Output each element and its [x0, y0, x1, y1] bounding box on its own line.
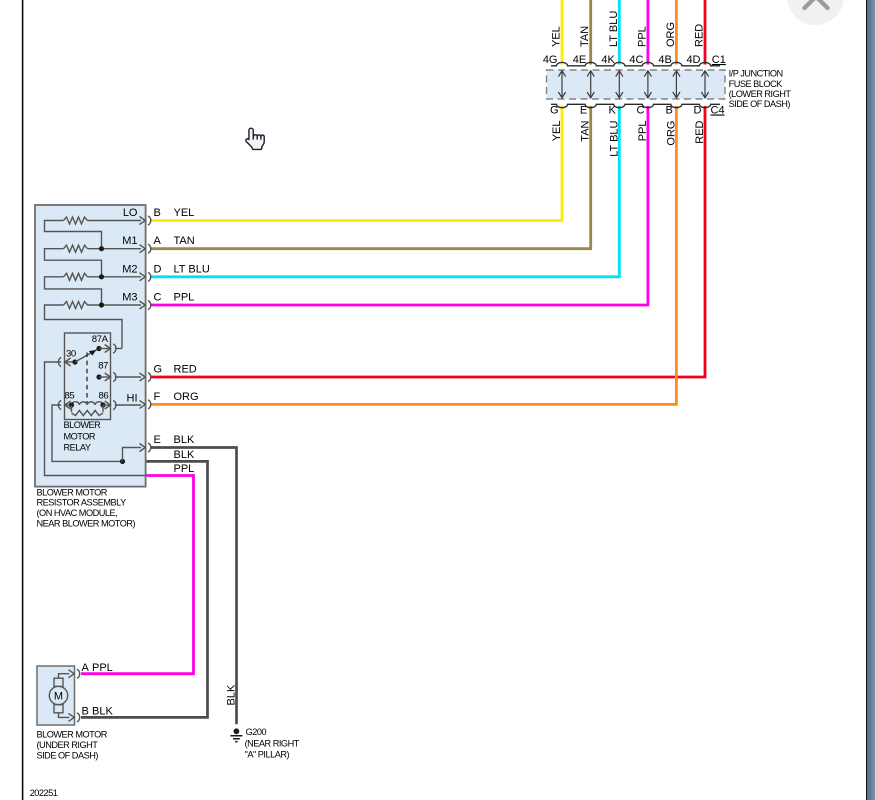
svg-text:ORG: ORG — [174, 391, 199, 403]
svg-text:B: B — [154, 207, 161, 219]
relay pin 87A — [96, 346, 101, 351]
relay armature 30 to 87A — [75, 349, 99, 363]
resistor M1 — [64, 245, 88, 252]
svg-text:TAN: TAN — [579, 26, 591, 47]
svg-text:C4: C4 — [711, 105, 725, 117]
svg-text:RED: RED — [174, 364, 197, 376]
svg-text:PPL: PPL — [636, 26, 648, 47]
svg-text:(UNDER RIGHT: (UNDER RIGHT — [37, 740, 99, 750]
blower motor label — [37, 730, 108, 761]
svg-text:85: 85 — [65, 391, 75, 402]
node BLK junction — [120, 459, 125, 464]
node M1 junction — [99, 246, 104, 251]
fuse block bottom connector bumps — [551, 104, 720, 107]
svg-text:TAN: TAN — [174, 235, 195, 247]
wire resistor chain serpentine — [45, 221, 123, 349]
resistor M2 — [64, 273, 88, 280]
svg-text:B: B — [666, 105, 673, 117]
page left border — [22, 0, 24, 800]
svg-text:RESISTOR ASSEMBLY: RESISTOR ASSEMBLY — [37, 498, 127, 508]
wire ORG above fuse block — [675, 0, 678, 65]
wire RED above fuse block — [704, 0, 707, 65]
blower motor box — [37, 666, 75, 725]
fuse block top connector bumps — [551, 62, 720, 65]
wire BLK relay 85 to blower motor B — [81, 461, 208, 717]
wire LO tap to connector — [88, 220, 142, 222]
svg-text:M: M — [54, 691, 63, 703]
connector pin A — [140, 245, 146, 253]
relay coil 85-86 — [58, 400, 61, 409]
wire BLK connector E to ground G200 — [151, 448, 237, 725]
svg-text:YEL: YEL — [551, 121, 563, 142]
fuse block pass-through arrow 4 — [644, 71, 651, 98]
svg-text:4E: 4E — [573, 54, 586, 66]
svg-text:E: E — [580, 105, 587, 117]
wire junction to connector E — [123, 448, 142, 462]
connector pin G — [140, 373, 146, 381]
svg-text:"A" PILLAR): "A" PILLAR) — [245, 750, 290, 760]
blower motor resistor assembly box — [35, 205, 146, 487]
svg-text:4G: 4G — [543, 54, 558, 66]
resistor LO — [64, 217, 88, 224]
svg-text:A: A — [82, 662, 90, 674]
motor M1 symbol — [49, 674, 69, 718]
close button — [787, 0, 844, 25]
svg-text:(NEAR RIGHT: (NEAR RIGHT — [245, 739, 300, 749]
ground G200 — [230, 728, 242, 741]
svg-text:PPL: PPL — [174, 292, 195, 304]
fuse block pass-through arrow 3 — [616, 71, 623, 98]
wire PPL fuse block to connector — [151, 106, 648, 305]
wire M1 tap to connector — [88, 248, 142, 250]
svg-text:B: B — [82, 706, 89, 718]
svg-text:4K: 4K — [601, 54, 615, 66]
wire 87A to resistor chain — [115, 348, 122, 350]
svg-text:BLOWER MOTOR: BLOWER MOTOR — [37, 487, 108, 497]
motor connector pin B — [68, 713, 74, 721]
svg-text:LO: LO — [123, 207, 138, 219]
blower motor relay label — [64, 420, 102, 452]
svg-text:(ON HVAC MODULE,: (ON HVAC MODULE, — [37, 508, 118, 518]
svg-text:BLK: BLK — [174, 434, 195, 446]
svg-text:BLOWER MOTOR: BLOWER MOTOR — [37, 730, 108, 740]
svg-text:D: D — [694, 105, 702, 117]
svg-text:4C: 4C — [629, 54, 643, 66]
wire 87 to connector G — [115, 376, 141, 378]
svg-text:LT BLU: LT BLU — [608, 11, 620, 47]
wire PPL above fuse block — [647, 0, 650, 65]
wire M3 tap to connector — [88, 304, 142, 306]
svg-text:HI: HI — [127, 392, 138, 404]
svg-text:4B: 4B — [658, 54, 671, 66]
wire TAN fuse block to connector — [151, 106, 591, 249]
svg-text:ORG: ORG — [665, 22, 677, 47]
svg-text:4D: 4D — [686, 54, 700, 66]
svg-text:I/P JUNCTION: I/P JUNCTION — [729, 69, 783, 79]
motor connector pin A — [68, 670, 74, 678]
svg-text:G: G — [154, 364, 163, 376]
svg-text:87: 87 — [98, 361, 108, 372]
ground label G200 — [245, 727, 300, 760]
svg-text:BLK: BLK — [174, 449, 195, 461]
fuse block pass-through arrow 6 — [701, 71, 708, 98]
resistor M3 — [64, 302, 88, 309]
mouse cursor — [246, 128, 264, 149]
svg-text:86: 86 — [99, 391, 109, 402]
svg-text:RELAY: RELAY — [64, 443, 91, 453]
fuse block name text — [729, 69, 792, 110]
svg-text:PPL: PPL — [92, 662, 113, 674]
svg-text:C: C — [636, 105, 644, 117]
connector pin B — [140, 217, 146, 225]
fuse block pass-through arrow 2 — [587, 71, 594, 98]
svg-text:YEL: YEL — [174, 207, 195, 219]
blower motor relay box — [65, 333, 111, 420]
svg-text:PPL: PPL — [637, 121, 649, 142]
I/P junction fuse block body — [547, 70, 726, 99]
connector pin E — [140, 444, 146, 452]
svg-text:D: D — [154, 263, 162, 275]
svg-text:PPL: PPL — [174, 463, 195, 475]
wire RED fuse block to connector — [151, 106, 705, 377]
connector pin C — [140, 301, 146, 309]
fuse block pass-through arrow 5 — [673, 71, 680, 98]
wire PPL relay 30 to blower motor A — [81, 476, 194, 674]
svg-text:C: C — [154, 292, 162, 304]
svg-text:LT BLU: LT BLU — [608, 120, 620, 156]
node M2 junction — [99, 274, 104, 279]
wire YEL fuse block to connector — [151, 106, 562, 221]
blower motor resistor assembly label — [37, 487, 136, 528]
svg-text:YEL: YEL — [551, 26, 563, 47]
connector pin D — [140, 273, 146, 281]
relay pin 30 — [58, 357, 61, 366]
wire M2 tap to connector — [88, 276, 142, 278]
svg-text:LT BLU: LT BLU — [174, 263, 210, 275]
svg-text:G200: G200 — [246, 727, 267, 737]
svg-text:RED: RED — [694, 24, 706, 47]
wire relay 86 to connector F — [115, 404, 141, 406]
svg-text:G: G — [550, 105, 559, 117]
wire relay 85 to BLK exit — [52, 405, 123, 461]
svg-text:87A: 87A — [92, 334, 109, 345]
svg-text:M1: M1 — [122, 235, 137, 247]
svg-text:SIDE OF DASH): SIDE OF DASH) — [37, 750, 99, 760]
fuse block pass-through arrow 1 — [558, 71, 565, 98]
wire relay 30 to PPL exit — [45, 362, 146, 476]
svg-text:A: A — [154, 235, 162, 247]
wire YEL above fuse block — [561, 0, 564, 65]
svg-text:ORG: ORG — [665, 121, 677, 146]
relay pin 87 — [96, 374, 101, 379]
svg-text:MOTOR: MOTOR — [64, 431, 96, 441]
relay mechanical link (dashed) — [86, 353, 88, 404]
svg-text:SIDE OF DASH): SIDE OF DASH) — [729, 99, 791, 109]
svg-text:(LOWER RIGHT: (LOWER RIGHT — [729, 89, 792, 99]
svg-text:C1: C1 — [712, 54, 726, 66]
svg-text:BLOWER: BLOWER — [64, 420, 102, 430]
wire LT BLU fuse block to connector — [151, 106, 619, 277]
wire TAN above fuse block — [589, 0, 592, 65]
svg-text:NEAR BLOWER MOTOR): NEAR BLOWER MOTOR) — [37, 519, 136, 529]
relay coil parallel resistor — [72, 405, 104, 412]
wire ORG fuse block to connector — [151, 106, 676, 404]
node M3 junction — [99, 302, 104, 307]
connector pin F — [140, 400, 146, 408]
svg-text:M2: M2 — [122, 263, 137, 275]
svg-text:K: K — [608, 105, 616, 117]
svg-text:BLK: BLK — [226, 684, 238, 705]
svg-text:30: 30 — [66, 349, 76, 360]
svg-text:E: E — [154, 434, 161, 446]
svg-text:BLK: BLK — [92, 706, 113, 718]
svg-text:F: F — [154, 391, 161, 403]
svg-text:TAN: TAN — [580, 120, 592, 141]
wire LT BLU above fuse block — [618, 0, 621, 65]
svg-text:202251: 202251 — [30, 788, 58, 798]
svg-text:M3: M3 — [122, 292, 137, 304]
svg-text:FUSE BLOCK: FUSE BLOCK — [729, 79, 784, 89]
svg-text:RED: RED — [694, 120, 706, 143]
